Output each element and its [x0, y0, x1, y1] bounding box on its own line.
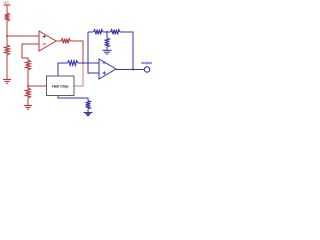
resistor R2	[5, 45, 10, 55]
resistor R1	[5, 13, 10, 21]
wire R7 to node D	[103, 31, 111, 33]
wire divider top left	[88, 31, 93, 33]
resistor R5	[61, 39, 71, 44]
wire U1 output	[56, 40, 61, 42]
ground (feedback divider)	[24, 106, 32, 110]
svg-text:Hall Chip: Hall Chip	[52, 84, 69, 88]
resistor R9	[105, 38, 110, 47]
wire R9 to ground	[106, 47, 108, 50]
output terminal	[144, 67, 149, 72]
wire R6 to op-amp U2 - input	[78, 62, 99, 64]
wire R3 to node B	[27, 70, 29, 86]
node D junction	[106, 31, 108, 33]
wire node B to R4	[27, 86, 29, 88]
node B junction	[27, 85, 29, 87]
wire R5 to node C	[71, 41, 84, 63]
node E junction	[132, 69, 134, 71]
resistor R4	[26, 88, 31, 98]
wire node D to R9	[106, 32, 108, 38]
svg-text:+5 V: +5 V	[3, 1, 9, 5]
wire R2 to ground	[6, 55, 8, 79]
svg-text:output: output	[141, 61, 152, 65]
resistor R8	[111, 30, 121, 35]
op-amp U1	[39, 31, 56, 51]
Hall Chip box	[47, 76, 75, 96]
wire supply to R1	[6, 5, 8, 13]
resistor R6	[68, 61, 79, 66]
wire R8 to output node	[120, 32, 133, 70]
wire Hall chip top pin to R6	[58, 63, 68, 76]
wire U2 output	[116, 69, 144, 71]
node C junction	[82, 62, 84, 64]
ground (Hall bottom)	[84, 113, 93, 117]
ground (left divider)	[3, 80, 11, 84]
power supply +V rail	[3, 1, 10, 6]
wire node A to R2	[6, 36, 8, 45]
wire node A to op-amp U1 + input	[7, 35, 39, 37]
resistor R3	[26, 60, 31, 70]
wire node B to Hall chip left pin	[28, 85, 47, 87]
resistor R7	[94, 30, 104, 35]
wire node C to Hall chip right pin	[74, 63, 83, 86]
node A junction	[6, 35, 8, 37]
wire R4 to ground	[27, 98, 29, 105]
wire Hall chip bottom pin to R10	[58, 96, 88, 101]
op-amp U2	[99, 59, 116, 79]
ground (divider mid)	[103, 50, 112, 54]
wire R10 to ground	[87, 109, 89, 113]
wire R1 to node A	[6, 21, 8, 36]
wire divider left leg to U2 + input	[88, 32, 99, 73]
wire U1 - input feedback	[22, 44, 39, 60]
resistor R10	[86, 101, 91, 110]
